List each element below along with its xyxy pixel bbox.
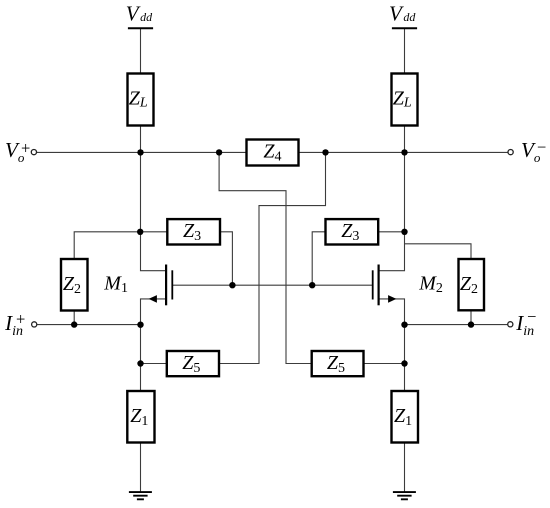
svg-text:Iin+: Iin+ bbox=[4, 309, 25, 339]
svg-text:Vdd: Vdd bbox=[126, 1, 153, 25]
svg-text:Vdd: Vdd bbox=[389, 1, 416, 25]
svg-text:M1: M1 bbox=[103, 273, 128, 297]
svg-text:Vo+: Vo+ bbox=[5, 138, 30, 165]
svg-text:Iin−: Iin− bbox=[515, 307, 536, 339]
svg-text:Vo−: Vo− bbox=[521, 138, 546, 166]
svg-text:M2: M2 bbox=[418, 273, 443, 297]
